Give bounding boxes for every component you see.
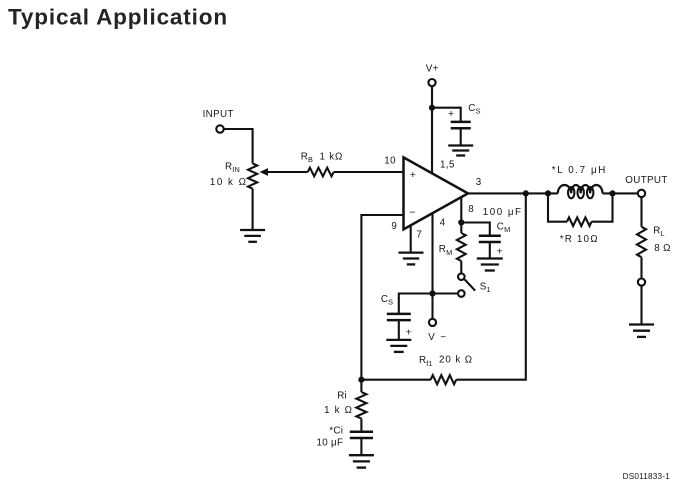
switch S1 top contact — [458, 273, 465, 280]
svg-text:9: 9 — [391, 221, 396, 232]
wire Ci to ground — [360, 438, 362, 455]
V+ terminal — [428, 79, 435, 86]
ground RL — [629, 323, 654, 325]
wire V+ to CS — [432, 108, 461, 122]
capacitor CM — [479, 235, 501, 238]
svg-text:7: 7 — [416, 229, 421, 240]
load terminal — [638, 279, 645, 286]
wire CS to ground — [460, 128, 462, 145]
wire wiper to RB — [268, 171, 308, 173]
wire pin4 to V- junction — [431, 212, 433, 293]
capacitor CS bottom — [387, 313, 411, 316]
junction dot V- — [429, 290, 435, 296]
resistor R parallel branch — [548, 197, 567, 222]
wire pin8 — [460, 197, 462, 233]
junction dot feedback node — [358, 377, 364, 383]
svg-text:+: + — [497, 245, 503, 257]
ground pot — [240, 229, 265, 231]
switch S1 blade — [465, 279, 476, 290]
capacitor CS top — [451, 121, 471, 124]
svg-text:1 kΩ: 1 kΩ — [320, 151, 344, 162]
wire node to Ri — [360, 380, 362, 392]
INPUT terminal — [216, 125, 223, 132]
wire Ri to Ci — [360, 419, 362, 432]
svg-text:V+: V+ — [426, 64, 439, 75]
capacitor Ci — [350, 430, 373, 433]
wire RM to switch — [460, 261, 462, 274]
resistor Rf1 zigzag — [431, 375, 457, 384]
junction dot feedback tap — [523, 190, 529, 196]
wire feedback vertical — [456, 193, 526, 379]
inductor L coil — [558, 185, 603, 193]
svg-text:100 μF: 100 μF — [483, 207, 523, 218]
wire switch to V- junction — [433, 292, 459, 294]
wire junction to V- terminal — [431, 294, 433, 319]
switch S1 bottom contact — [458, 290, 465, 297]
resistor RM zigzag — [457, 233, 466, 261]
svg-text:10 μF: 10 μF — [317, 437, 344, 448]
wire Rf1 to node — [361, 379, 430, 381]
potentiometer RIN wiper arrow — [260, 168, 268, 176]
wire load terminal to ground — [640, 286, 642, 325]
ground pin7 — [399, 251, 424, 253]
wire coil to OUTPUT terminal — [603, 192, 639, 194]
svg-text:V −: V − — [428, 332, 447, 343]
svg-text:+: + — [410, 169, 416, 181]
svg-text:Typical Application: Typical Application — [8, 5, 228, 30]
wire pin8 to CM — [461, 223, 490, 237]
svg-text:3: 3 — [476, 177, 482, 188]
wire op-amp output — [468, 192, 558, 194]
svg-text:+: + — [448, 108, 454, 120]
svg-text:OUTPUT: OUTPUT — [625, 175, 667, 186]
wire RL to load terminal — [640, 257, 642, 278]
wire input to pot — [224, 129, 253, 163]
ground Ci — [349, 454, 374, 456]
svg-text:DS011833-1: DS011833-1 — [623, 472, 671, 481]
svg-text:8: 8 — [468, 204, 474, 215]
OUTPUT terminal — [638, 190, 645, 197]
resistor RL zigzag — [637, 227, 646, 257]
svg-text:*R 10Ω: *R 10Ω — [560, 234, 599, 245]
wire pot to ground — [252, 189, 254, 230]
svg-text:10: 10 — [384, 155, 396, 166]
junction dot L right — [609, 190, 615, 196]
wire V- junction to CS bottom — [399, 294, 433, 315]
wire CS bottom to ground — [398, 320, 400, 340]
resistor Ri zigzag — [356, 392, 366, 419]
potentiometer RIN zigzag — [248, 163, 257, 188]
svg-text:Ri: Ri — [337, 390, 347, 401]
wire pin7 — [410, 225, 412, 253]
junction dot pin8 — [458, 219, 464, 225]
svg-text:20 k Ω: 20 k Ω — [439, 354, 473, 365]
svg-text:*Ci: *Ci — [329, 425, 343, 436]
ground CS bottom — [386, 339, 411, 341]
svg-text:4: 4 — [440, 217, 446, 228]
V- terminal — [429, 319, 436, 326]
svg-text:1 k Ω: 1 k Ω — [324, 405, 353, 416]
svg-text:−: − — [409, 207, 415, 219]
wire CM to ground — [489, 242, 491, 259]
ground CS top — [448, 144, 473, 146]
svg-text:8 Ω: 8 Ω — [654, 243, 670, 254]
op-amp U1 triangle — [404, 157, 469, 229]
wire V+ to op-amp — [431, 86, 433, 173]
svg-text:*L 0.7 μH: *L 0.7 μH — [552, 165, 607, 176]
svg-text:1,5: 1,5 — [440, 159, 455, 170]
svg-text:+: + — [406, 326, 412, 338]
ground CM — [477, 257, 503, 259]
svg-text:INPUT: INPUT — [203, 109, 234, 120]
svg-text:10 k Ω: 10 k Ω — [210, 177, 248, 188]
wire output to RL — [640, 197, 642, 227]
resistor RB zigzag — [308, 168, 334, 177]
junction dot V+ — [429, 105, 435, 111]
wire RB to op-amp pin10 — [334, 171, 403, 173]
junction dot L left — [545, 190, 551, 196]
wire pin9 from feedback node — [361, 215, 402, 380]
